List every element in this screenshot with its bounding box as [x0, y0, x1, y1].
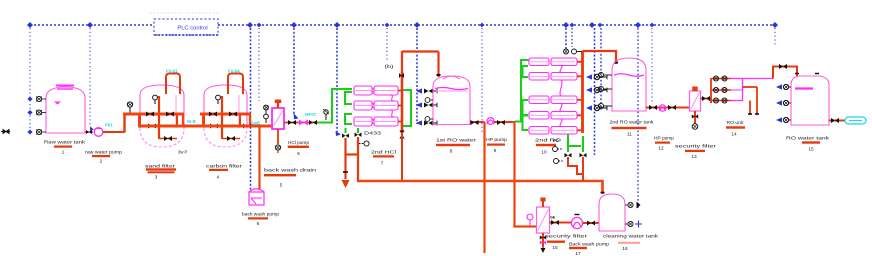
level tick inside tank: [54, 102, 61, 105]
wire: legs into waste header: [568, 157, 583, 181]
wire: control drop x337: [336, 28, 338, 132]
wire: permeate line to 1st RO tank: [402, 51, 439, 77]
svg-text:cleaning water tank: cleaning water tank: [603, 234, 659, 239]
svg-text:2: 2: [100, 159, 103, 165]
wire: sand filter internal risers: [159, 96, 177, 139]
svg-text:MF07: MF07: [305, 112, 317, 117]
RO valve grid row2: [711, 88, 731, 93]
wire: control drop x638: [637, 28, 639, 208]
svg-text:17: 17: [575, 251, 581, 256]
wire: control drop x572: [571, 28, 573, 47]
valve pair on CF2 outlet: [551, 220, 559, 225]
instrument circles near legs: [553, 147, 565, 164]
instrument T3-b: [598, 86, 612, 91]
vessel CF2 security filter (bottom): [537, 198, 550, 234]
valve TB1: [586, 74, 607, 79]
membrane module M2 row2: [529, 73, 577, 81]
wire: HP pump discharge: [494, 121, 515, 123]
svg-text:2wB: 2wB: [251, 121, 260, 126]
valve carbon filter bottom: [227, 136, 235, 141]
concentrate legs below stack2: [568, 134, 583, 152]
fill line tank T3: [614, 74, 644, 77]
label RO water tank: [786, 136, 830, 153]
valve pair tank T2 outlet: [471, 120, 479, 125]
valve pair T4 outlet: [831, 118, 839, 123]
label raw water pump: [85, 150, 122, 165]
red backwash loop FV-04: [228, 74, 243, 95]
green bracket stack1 right: [403, 90, 411, 126]
svg-text:D433: D433: [364, 131, 382, 136]
valve TA1: [416, 88, 437, 93]
vessel F1 sand filter: [140, 85, 184, 147]
svg-text:security filter: security filter: [675, 144, 717, 149]
blue arrow from drop x294: [294, 113, 299, 119]
wire: tank T3 outlet to cartridge filter: [646, 107, 690, 109]
label security filter 13: [675, 144, 717, 161]
instrument T3-c: [598, 103, 612, 108]
valve TC3 tank T4 row3: [776, 117, 791, 122]
green bracket stack2 b2: [523, 100, 529, 115]
label raw water tank: [44, 140, 86, 156]
valve TA2: [416, 102, 437, 107]
svg-text:RO unit: RO unit: [727, 120, 745, 125]
valve pair after P12: [668, 105, 676, 110]
membrane module M2 row5: [529, 127, 577, 135]
svg-text:7: 7: [381, 161, 384, 167]
label Back wash pump 17: [569, 242, 610, 256]
svg-text:P01: P01: [105, 123, 113, 128]
wire: common lower header: [139, 125, 273, 128]
wire: control drop x652: [651, 28, 653, 103]
valve pair before green line: [309, 120, 317, 125]
valve TB3: [586, 105, 607, 110]
node diamonds on control line: [27, 22, 778, 28]
label 2nd HCl: [371, 150, 396, 167]
svg-text:W-B: W-B: [187, 119, 196, 124]
vessel CF1 cartridge filter: [690, 87, 701, 112]
label 2nd RO: [535, 138, 562, 156]
wire: waste header to cleaning tank: [357, 181, 603, 194]
label sand filter: [145, 164, 176, 181]
valve pair CF1 outlet: [702, 96, 710, 101]
wire: red manifold stack2: [577, 51, 583, 133]
label HP pump: [486, 137, 507, 154]
instrument on tank T2 left lower: [425, 117, 433, 122]
wire: pump discharge to filters header: [103, 114, 125, 133]
wire: control drop x387: [386, 28, 388, 62]
wire: tank T4 outlet to users: [829, 120, 845, 122]
green bracket stack2 b3: [523, 116, 529, 131]
svg-text:back wash pump: back wash pump: [242, 212, 279, 217]
svg-text:11: 11: [627, 132, 632, 138]
svg-text:PLC control: PLC control: [177, 26, 207, 32]
wire: control drop x566: [565, 28, 567, 50]
label 2nd RO tank: [610, 120, 655, 138]
valve after dosing pot: [288, 120, 296, 125]
magenta S-links stack2: [560, 66, 562, 127]
svg-text:carbon filter: carbon filter: [206, 164, 243, 169]
valve on sand filter top: [153, 95, 158, 104]
svg-text:sand filter: sand filter: [145, 164, 176, 169]
PLC control signal bus (blue dotted): [27, 22, 778, 208]
wire: concentrate leg x358 with bridge: [346, 137, 359, 181]
wire: main horizontal control line: [30, 24, 775, 26]
instruments on permeate top: [564, 49, 583, 54]
label HP pump 12: [654, 136, 674, 152]
label HCl pump: [288, 140, 310, 157]
ticks on concentrate legs: [748, 113, 759, 115]
valve on drop x345: [342, 134, 349, 138]
wire: CF2 outlet to CIP pump: [550, 222, 572, 224]
svg-text:10: 10: [541, 150, 547, 156]
valve on P17 discharge: [587, 221, 595, 226]
wire: red manifold stack1: [398, 72, 402, 132]
svg-text:14: 14: [731, 132, 737, 138]
wire: top header carbon filter: [200, 114, 251, 128]
svg-text:8: 8: [450, 149, 453, 155]
label cleaning water tank: [603, 234, 659, 253]
valve sand filter bottom: [164, 136, 172, 141]
svg-text:security filter: security filter: [545, 234, 588, 239]
wire: RO permeate to tank T4: [773, 67, 797, 79]
instrument T5-a with arrow: [625, 202, 641, 209]
svg-text:16: 16: [622, 246, 628, 252]
stub valve far left edge: [1, 130, 10, 134]
valve on permeate top: [779, 64, 787, 69]
svg-text:HP pump: HP pump: [654, 136, 674, 141]
membrane module M2 row4: [529, 112, 577, 120]
tank T5 cleaning water tank: [599, 194, 625, 231]
wire: top header sand filter: [123, 114, 184, 128]
wire: control drop x30: [29, 28, 31, 130]
svg-text:5: 5: [280, 183, 283, 189]
tank T1 raw water tank: [46, 87, 85, 133]
wire: control drop x417: [416, 28, 418, 124]
cyan outlet capsule: [845, 117, 866, 124]
svg-text:6: 6: [257, 221, 260, 227]
svg-text:6: 6: [297, 151, 300, 157]
valve on leg x568: [565, 153, 572, 157]
membrane module M1 row2: [354, 101, 398, 110]
label RO unit: [726, 120, 745, 138]
tick tank T3 inlet: [614, 62, 618, 64]
instrument circle left of CF2: [527, 214, 533, 226]
wire: drain leg x345: [342, 138, 350, 188]
RO valve grid row3: [711, 98, 731, 103]
wire: green feed riser to 2nd stack: [515, 60, 530, 122]
wire: control drop x600: [600, 28, 602, 110]
valve on carbon filter top: [216, 95, 221, 104]
valve TC1 tank T4 inlet row1: [776, 84, 791, 89]
valve pair T3 outlet: [649, 105, 657, 110]
svg-text:13: 13: [691, 154, 697, 160]
svg-text:12: 12: [658, 146, 664, 152]
wire: pump P17 discharge to cleaning tank: [583, 222, 600, 224]
wire: cartridge filter outlet: [701, 99, 712, 104]
tick tank1 inlet: [437, 74, 441, 76]
svg-text:2nd RO water tank: 2nd RO water tank: [610, 120, 655, 125]
wire: control drop x592: [594, 28, 596, 155]
valve row LV1 (tank left, top): [27, 97, 46, 102]
membrane module M2 row1: [529, 58, 577, 66]
tick tank T4 inlet: [795, 73, 819, 75]
svg-text:3: 3: [155, 175, 158, 181]
vessel F2 carbon filter: [204, 85, 247, 147]
instrument circle below 433: [359, 141, 369, 146]
instrument T3-a: [598, 72, 612, 77]
svg-text:back wash drain: back wash drain: [264, 168, 317, 173]
svg-text:3w P: 3w P: [178, 150, 188, 155]
wire: CF2 drain: [540, 233, 546, 253]
wire: control drop x294: [293, 28, 295, 115]
instrument on tank T2 left upper: [425, 98, 433, 103]
wire: dosing vessel drain: [275, 129, 280, 153]
PLC control box: [150, 13, 218, 35]
svg-text:15: 15: [552, 245, 558, 251]
tick on pump P17: [575, 214, 580, 216]
wire: control drop x259: [258, 28, 260, 101]
valve row LV3 (tank left, bottom): [27, 130, 46, 135]
svg-text:2nd RO: 2nd RO: [535, 138, 562, 143]
svg-text:GE: GE: [550, 216, 556, 220]
label back wash pump 6 (bottom left): [242, 212, 279, 228]
wire: control drop x250: [250, 28, 252, 190]
instrument T5-b with blue mark: [625, 221, 642, 228]
valve stack left of dosing vessel: [264, 105, 269, 123]
magenta S-link between rows stack1: [390, 95, 394, 117]
valve on drop x358: [355, 133, 362, 137]
tank T3 2nd RO tank: [612, 58, 646, 111]
label security filter (bottom): [545, 234, 588, 252]
wire: feed riser to RO valve grid: [710, 78, 712, 103]
svg-text:RO water tank: RO water tank: [786, 136, 830, 141]
valve on leg x583: [580, 153, 587, 157]
valve flag on green corner: [323, 109, 329, 120]
membrane module M1 row3: [354, 117, 398, 126]
valve pair after HP pump: [497, 120, 505, 125]
valve magenta on mixer line: [299, 120, 308, 126]
svg-text:FV-01: FV-01: [166, 69, 178, 74]
wire: cartridge filter drain: [692, 111, 698, 129]
green bracket stack2 b1: [523, 66, 529, 77]
label carbon filter: [206, 164, 243, 181]
tank T2 1st RO water tank: [433, 76, 470, 125]
red backwash loop FV-01: [166, 74, 180, 95]
svg-text:4: 4: [217, 175, 220, 181]
pump P17 backwash pump (magenta circle): [571, 217, 582, 228]
green bracket stack1 left lower: [345, 114, 352, 124]
wire: drop to backwash pump: [258, 127, 260, 190]
valve on recirc leg x402: [399, 131, 404, 139]
svg-text:HP pump: HP pump: [486, 137, 507, 142]
wire: long drop x484: [483, 122, 485, 253]
wire: dosing outlet: [284, 122, 318, 124]
pump P6 backwash pump: [249, 189, 264, 205]
wire: RO concentrate legs: [743, 87, 758, 115]
wire: control drop x90: [89, 28, 91, 125]
valve row LV2 (tank left, middle): [27, 110, 46, 115]
wire: permeate to tank T3: [583, 51, 617, 64]
RO valve grid row1: [711, 76, 731, 81]
green bracket stack1 left upper: [345, 92, 352, 104]
pump P1 raw water pump: [85, 127, 103, 137]
wire: tank T2 outlet: [470, 121, 485, 123]
valve TC2 tank T4 row2: [776, 100, 791, 105]
svg-text:raw water pump: raw water pump: [85, 150, 122, 155]
svg-text:1st RO water: 1st RO water: [436, 138, 477, 143]
svg-text:9: 9: [494, 148, 497, 154]
RO unit membrane header (magenta): [731, 79, 773, 101]
wire: control drop x775: [774, 28, 776, 46]
valve on stack1 manifold top: [399, 73, 404, 78]
tick T5 inlet top: [601, 192, 605, 194]
wire: carbon filter internal risers: [222, 96, 240, 139]
svg-text:2nd HCl: 2nd HCl: [371, 150, 396, 155]
valves on carbon header: [209, 112, 251, 129]
label back wash: [264, 168, 317, 189]
fill line tank T2: [435, 88, 468, 92]
membrane module M1 row1: [354, 86, 398, 95]
svg-text:(b): (b): [385, 64, 395, 69]
pump P12 HP pump (magenta): [659, 105, 665, 111]
valve TA3: [416, 120, 437, 125]
membrane module M2 row3: [529, 96, 577, 104]
concentrate drops below stack1: [346, 128, 359, 133]
wire: green supply to 1st membrane stack: [318, 89, 352, 123]
pump P9 HP pump (magenta): [487, 118, 494, 125]
valve V-riser (circle on stem): [127, 102, 132, 113]
svg-text:15: 15: [808, 147, 814, 153]
svg-text:Raw water tank: Raw water tank: [44, 140, 86, 145]
level marker blob on tank top: [56, 86, 74, 90]
svg-text:1: 1: [62, 150, 65, 156]
svg-text:Back wash pump: Back wash pump: [569, 242, 610, 247]
wire: control drop x482: [481, 28, 483, 134]
wire: recirc leg x402 down to waste header: [401, 132, 403, 181]
valve TB2: [586, 87, 607, 92]
tank T4 RO water tank: [791, 76, 829, 125]
vessel D1 dosing pot: [272, 100, 284, 130]
fill blob tank T4: [795, 87, 813, 89]
label 1st RO water: [436, 138, 477, 155]
valves on sand header: [146, 112, 174, 129]
wire: long drop x514 to bottom filter: [515, 122, 537, 227]
svg-text:FV-04: FV-04: [228, 69, 240, 74]
svg-text:HCl pump: HCl pump: [288, 140, 309, 145]
